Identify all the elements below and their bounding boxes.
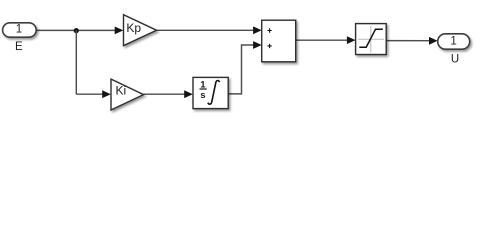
saturation block: [356, 24, 387, 55]
svg-text:Ki: Ki: [115, 84, 126, 98]
wire Sum to Saturation: [296, 39, 349, 41]
sum block: [262, 20, 296, 62]
junction dot: [74, 28, 79, 33]
wire Kp to Sum: [157, 29, 255, 31]
wire E to branch: [36, 29, 76, 31]
gain Kp: [124, 15, 157, 46]
sum plus sign input 1: [267, 28, 271, 32]
sum plus sign input 2: [267, 44, 271, 48]
svg-text:s: s: [200, 90, 205, 101]
svg-text:U: U: [451, 54, 459, 66]
arrowhead into Sum input 2: [253, 41, 262, 49]
svg-text:1: 1: [16, 24, 22, 36]
inport 1 (E): [3, 23, 37, 37]
wire integrator to sum: horizontal out: [228, 45, 254, 94]
integrator block U3: [193, 77, 228, 108]
saturation axis vertical: [370, 26, 372, 52]
arrowhead into Kp: [115, 27, 124, 35]
integrator fraction bar: [200, 88, 207, 90]
gain Ki: [111, 79, 144, 110]
wire Ki to integrator: [144, 93, 186, 95]
outport 1 (U): [438, 34, 470, 49]
saturation axis horizontal: [358, 38, 384, 40]
wire branch to Ki: [76, 93, 103, 95]
arrowhead into outport: [429, 37, 438, 45]
svg-text:E: E: [15, 41, 23, 53]
svg-text:1: 1: [450, 35, 456, 47]
arrowhead into Sum input 1: [253, 26, 262, 34]
svg-text:Kp: Kp: [126, 21, 141, 35]
saturation curve: [359, 29, 383, 47]
integrator integral sign: [208, 81, 220, 105]
wire branch to Kp: [76, 29, 116, 31]
arrowhead into Saturation: [347, 36, 356, 44]
arrowhead into integrator: [184, 90, 193, 98]
arrowhead into Ki: [102, 90, 111, 98]
wire branch down: [75, 30, 77, 94]
wire Saturation to outport: [386, 40, 430, 42]
